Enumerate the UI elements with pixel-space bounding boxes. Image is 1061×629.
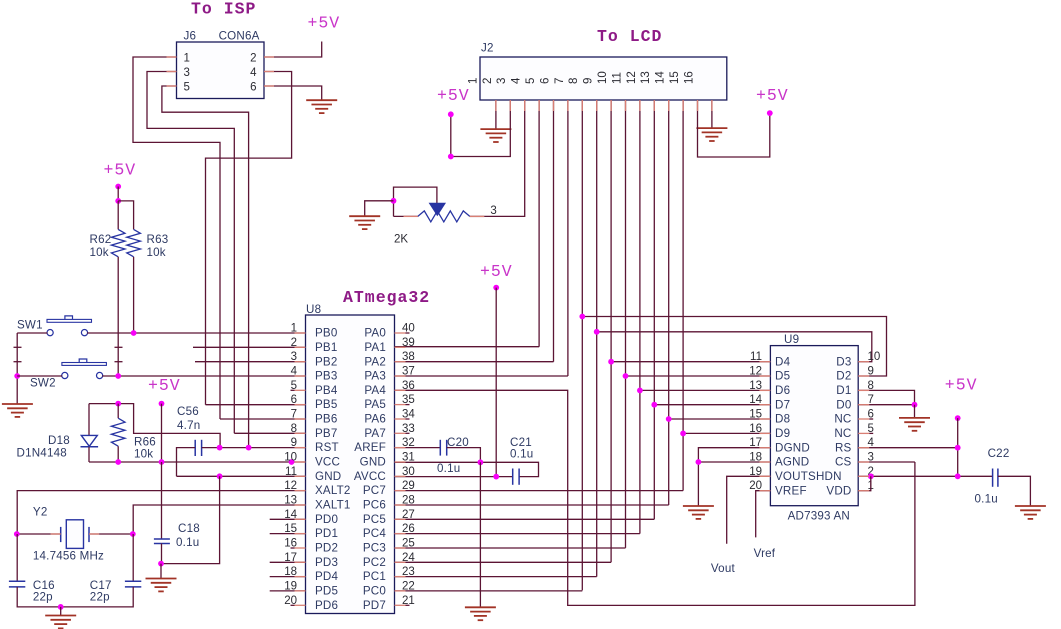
- pin stub U8-13: [295, 504, 306, 506]
- pin stub U8-6: [295, 404, 306, 406]
- svg-text:3: 3: [184, 67, 190, 79]
- pin stub U9 right 3: [858, 461, 869, 463]
- ground at J6 pin6: [306, 100, 337, 113]
- pin name RST U8-9: [315, 441, 339, 454]
- wire PC7 row (pin29) to J2 p14: [395, 490, 684, 492]
- pin stub U9 right 1: [858, 490, 869, 492]
- junction dot J2 p13: [666, 416, 672, 422]
- pin name PB2 U8-3: [315, 355, 338, 368]
- pin name PC5 U8-27: [363, 513, 386, 526]
- wire D0 to ground: [914, 405, 916, 418]
- pin stub U8-3: [295, 361, 306, 363]
- svg-text:D9: D9: [775, 427, 790, 440]
- wire crystal ground rail: [17, 587, 133, 607]
- wire J2 pin4 vertical: [538, 100, 540, 347]
- capacitor C20: [440, 440, 446, 456]
- svg-text:PA7: PA7: [364, 427, 386, 440]
- pin stub U9 left 19: [759, 475, 770, 477]
- junction dot J2 p11: [637, 388, 643, 394]
- svg-text:3: 3: [490, 205, 496, 217]
- svg-text:D6: D6: [775, 384, 790, 397]
- wire J2 pin16 to ground: [711, 100, 713, 128]
- junction dot R62/R63 top: [115, 198, 121, 204]
- junction dot RS/+5V: [955, 445, 961, 451]
- wire PC5 row (pin27) to J2 p12: [395, 518, 655, 520]
- svg-text:0.1u: 0.1u: [975, 493, 998, 506]
- wire D4 row from J2 p9: [611, 361, 770, 363]
- pin name PC6 U8-28: [363, 499, 386, 512]
- wire VCC row (pin10): [89, 461, 306, 463]
- wire PC4 row (pin26) to J2 p11: [395, 533, 640, 535]
- junction dot crystal left: [14, 531, 20, 537]
- pin stub J6-6: [264, 85, 274, 87]
- pin name D1 U9-8: [836, 384, 851, 397]
- pin number 20 U8: [284, 595, 297, 607]
- wire J6 pin2 to +5V: [264, 42, 322, 58]
- pin number 8 U9: [868, 380, 874, 392]
- svg-text:PA5: PA5: [364, 398, 386, 411]
- wire D8 row from J2 p13: [669, 418, 771, 420]
- wire PC6 row (pin28) to J2 p13: [395, 504, 669, 506]
- pin number 10 U9: [868, 351, 881, 363]
- wire tick row2 left: [14, 346, 22, 348]
- label SW1: [17, 319, 43, 332]
- wire ground branch: [365, 201, 394, 216]
- wire SW2 to PB3 (pin4 row): [102, 375, 305, 377]
- ground at C22: [1015, 506, 1046, 519]
- capacitor C56: [195, 440, 201, 456]
- svg-text:10: 10: [868, 351, 881, 363]
- wire SHDN row (pin2): [858, 475, 992, 477]
- label 2K: [394, 233, 408, 245]
- svg-text:22p: 22p: [33, 590, 53, 603]
- pin stub U8-7: [295, 418, 306, 420]
- pin number 10 U8: [284, 452, 297, 464]
- label C21: [510, 436, 532, 449]
- wire stub tick pin40: [406, 332, 410, 334]
- svg-text:+5V: +5V: [756, 86, 789, 105]
- wire PB7 row (pin8): [234, 432, 305, 434]
- pin name D2 U9-9: [836, 370, 851, 383]
- wire DGND row (pin17): [698, 448, 770, 506]
- svg-text:7: 7: [554, 78, 566, 84]
- svg-text:CON6A: CON6A: [219, 30, 260, 43]
- svg-text:PB0: PB0: [315, 327, 338, 340]
- pin number 12 U9: [749, 366, 762, 378]
- pin number 4 J6: [250, 67, 257, 79]
- pin stub U9 left 20: [759, 490, 770, 492]
- pin number 11 U8: [285, 466, 297, 478]
- power +5V above R62: [104, 160, 137, 179]
- pin number 5 U8: [291, 380, 297, 392]
- wire D3 route from J2 p8: [597, 332, 872, 362]
- junction dot SHDN/VDD: [868, 473, 874, 479]
- wire J2 pin15 to +5V: [698, 100, 770, 157]
- pin name PA7 U8-33: [364, 427, 386, 440]
- pin name PB4 U8-5: [315, 384, 338, 397]
- label R63: [147, 233, 169, 246]
- wire J6 pin1 to PB6 route: [133, 57, 220, 419]
- pin stub U8-23: [395, 576, 406, 578]
- pin name PD3 U8-17: [315, 556, 338, 569]
- pin stub U8-38: [395, 361, 406, 363]
- svg-text:J6: J6: [184, 30, 197, 43]
- label C22: [988, 447, 1010, 460]
- wire +5V vertical U9: [957, 418, 959, 476]
- svg-text:0.1u: 0.1u: [510, 448, 533, 461]
- pin stub U8-5: [295, 389, 306, 391]
- pin name PB1 U8-2: [315, 341, 338, 354]
- pin name PD1 U8-15: [315, 527, 338, 540]
- svg-text:D8: D8: [775, 413, 790, 426]
- svg-text:PD5: PD5: [315, 585, 338, 598]
- svg-text:12: 12: [626, 71, 638, 84]
- svg-text:GND: GND: [360, 456, 386, 469]
- svg-text:PC1: PC1: [363, 570, 386, 583]
- pin number 4 U8: [291, 366, 298, 378]
- label CON6A: [219, 30, 260, 43]
- wire R63 top branch: [118, 201, 133, 230]
- pot stub left: [404, 215, 418, 217]
- pin stub U8-35: [395, 404, 406, 406]
- pin stub U8-27: [395, 518, 406, 520]
- pin name PC1 U8-23: [363, 570, 386, 583]
- junction dot SW2 left: [14, 373, 20, 379]
- wire SW2 left: [17, 375, 62, 377]
- wire J2 pin8 vertical: [596, 100, 598, 577]
- capacitor C16: [9, 581, 25, 587]
- wire XALT1 row (pin13): [133, 505, 305, 534]
- junction dot C18 bottom: [158, 561, 164, 567]
- wire RS (pin4): [858, 447, 958, 449]
- pin number 30 U8: [402, 466, 415, 478]
- svg-text:4: 4: [511, 77, 523, 84]
- pin number 17 U9: [749, 437, 762, 449]
- wire J2 pin1 to ground: [495, 100, 497, 129]
- ic U8 box: [306, 315, 395, 614]
- pin stub U8-26: [395, 533, 406, 535]
- label C20 value 0.1u: [437, 462, 460, 475]
- pin number 13 U8: [284, 495, 297, 507]
- label U9: [784, 333, 799, 346]
- svg-text:PC5: PC5: [363, 513, 386, 526]
- pin stub U8-37: [395, 375, 406, 377]
- wire J2 pin10 vertical: [625, 100, 627, 548]
- junction dot SW2/R62: [115, 373, 121, 379]
- title To LCD: [597, 27, 662, 46]
- pin stub J2-2: [509, 100, 511, 111]
- junction dot R66 top: [115, 401, 121, 407]
- junction dot J2 p9: [608, 359, 614, 365]
- junction dot +5V left corner: [448, 154, 454, 160]
- pin stub U9 left 15: [759, 418, 770, 420]
- wire VREF (pin20): [756, 491, 771, 538]
- pin name D6 U9-13: [775, 384, 790, 397]
- pin name D5 U9-12: [775, 370, 790, 383]
- svg-text:6: 6: [539, 78, 551, 84]
- junction dot D0/D1: [912, 402, 918, 408]
- svg-text:PA3: PA3: [364, 370, 386, 383]
- pin stub U9 left 13: [759, 389, 770, 391]
- pin stub J6-5: [167, 85, 177, 87]
- diode D18: [81, 404, 99, 462]
- wire PB1 row (pin2): [193, 346, 306, 348]
- svg-text:C18: C18: [178, 522, 200, 535]
- power +5V left of J2: [437, 86, 470, 105]
- wire GND row (pin31): [395, 462, 539, 476]
- svg-text:CS: CS: [835, 456, 852, 469]
- wire +5V to AVCC: [495, 288, 497, 477]
- net label Vout: [711, 562, 736, 575]
- wire J2 pin9 vertical: [610, 100, 612, 562]
- wire rail to ground: [60, 607, 62, 615]
- pin name PD0 U8-14: [315, 513, 338, 526]
- pin number 40 U8: [402, 323, 415, 335]
- label C22 value 0.1u: [975, 493, 998, 506]
- svg-text:D18: D18: [48, 434, 70, 447]
- pin stub J2-6: [567, 100, 569, 111]
- wire D0 (pin7): [858, 404, 914, 406]
- svg-text:D0: D0: [836, 398, 851, 411]
- svg-text:AGND: AGND: [775, 456, 809, 469]
- ground at J2 pin1: [480, 129, 511, 142]
- label C17: [90, 579, 112, 592]
- junction dot AVCC/+5V: [493, 474, 499, 480]
- pin name NC U9-5: [834, 427, 851, 440]
- pin number 9 U9: [868, 366, 874, 378]
- wire PD5 dangling (pin19): [270, 590, 306, 592]
- wire stub tick pin21: [406, 604, 410, 606]
- svg-text:PD3: PD3: [315, 556, 338, 569]
- wire VOUT (pin19): [727, 476, 771, 544]
- svg-text:+5V: +5V: [480, 262, 513, 281]
- wire PC1 row (pin23) to J2 p8: [395, 576, 597, 578]
- pin stub U9 left 17: [759, 447, 770, 449]
- svg-text:PD4: PD4: [315, 570, 339, 583]
- svg-text:PD7: PD7: [363, 599, 386, 612]
- label 3 at pot terminal: [490, 205, 496, 217]
- svg-text:PC2: PC2: [363, 556, 386, 569]
- wire PB2 row (pin3): [195, 361, 306, 363]
- connector J2 box: [480, 57, 727, 100]
- node +5V terminal left of J2: [448, 111, 454, 117]
- pin number 36 U8: [402, 380, 415, 392]
- pin stub U8-11: [295, 475, 306, 477]
- pin name PA5 U8-35: [364, 398, 386, 411]
- pin number 6 J6: [250, 82, 256, 94]
- pin number 6 U9: [868, 409, 874, 421]
- pin name AREF U8-32: [354, 441, 386, 454]
- pin stub U8-15: [295, 533, 306, 535]
- svg-text:4: 4: [250, 67, 257, 79]
- pin name RS U9-4: [835, 441, 852, 454]
- svg-text:10k: 10k: [147, 246, 166, 259]
- pin number 16 J2 (rotated): [683, 71, 695, 84]
- junction dot VCC at chip: [289, 459, 295, 465]
- wire RST row (pin9): [202, 447, 306, 449]
- pin stub U8-9: [295, 447, 306, 449]
- switch SW2: [62, 359, 107, 379]
- junction dot J2 p14: [680, 431, 686, 437]
- svg-text:10: 10: [597, 71, 609, 84]
- pin number 33 U8: [402, 423, 415, 435]
- pin stub U8-18: [295, 576, 306, 578]
- junction dot +5V/VCC: [159, 459, 165, 465]
- pin name PC3 U8-25: [363, 542, 386, 555]
- svg-text:VREF: VREF: [775, 484, 807, 497]
- pin stub U9 left 18: [759, 461, 770, 463]
- wire XALT2 row (pin12): [17, 491, 305, 534]
- pin stub J2-15: [697, 100, 699, 111]
- pin stub J2-4: [538, 100, 540, 111]
- wire +5V to VCC row: [161, 404, 163, 462]
- pin name PC2 U8-24: [363, 556, 386, 569]
- junction dot J2 p8: [594, 329, 600, 335]
- svg-text:11: 11: [611, 72, 623, 84]
- pin stub U9 right 5: [858, 432, 869, 434]
- svg-text:AVCC: AVCC: [354, 470, 386, 483]
- pin stub U9 right 9: [858, 375, 869, 377]
- wire stub tick pin34: [406, 418, 410, 420]
- pin stub U8-4: [295, 375, 306, 377]
- power +5V above U8: [480, 262, 513, 281]
- svg-text:2: 2: [250, 53, 256, 65]
- svg-text:Vref: Vref: [754, 547, 776, 560]
- pin name PA0 U8-40: [364, 327, 386, 340]
- ground at switches: [2, 404, 33, 417]
- svg-text:PA4: PA4: [364, 384, 386, 397]
- junction dot J2 p12: [651, 402, 657, 408]
- wire J2 pin11 vertical: [639, 100, 641, 534]
- svg-text:VCC: VCC: [315, 456, 340, 469]
- label D18 value D1N4148: [17, 447, 67, 460]
- node +5V terminal right of J2: [767, 110, 773, 116]
- junction dot R66 bottom: [115, 459, 121, 465]
- pin number 4 J2 (rotated): [511, 77, 523, 84]
- wire stub tick pin5: [291, 389, 295, 391]
- wire AVCC row (pin30): [395, 476, 513, 478]
- pin number 15 U9: [749, 409, 762, 421]
- ground at D0/D1: [899, 418, 930, 431]
- pin name PC7 U8-29: [363, 484, 386, 497]
- label AD7393 AN: [788, 510, 850, 523]
- svg-text:0.1u: 0.1u: [437, 462, 460, 475]
- pin stub J6-2: [264, 56, 274, 58]
- pin number 12 J2 (rotated): [626, 71, 638, 84]
- pin number 13 U9: [749, 380, 762, 392]
- pin name PA2 U8-38: [364, 355, 386, 368]
- pin name NC U9-6: [834, 413, 851, 426]
- wire R63 bottom to SW1 row: [133, 257, 135, 333]
- label R63 value 10k: [147, 246, 166, 259]
- svg-text:PC4: PC4: [363, 527, 387, 540]
- pin stub U9 left 12: [759, 375, 770, 377]
- wire stub tick U9 pin6: [869, 418, 873, 420]
- svg-text:PB7: PB7: [315, 427, 338, 440]
- svg-text:+5V: +5V: [437, 86, 470, 105]
- wire tick row3 left: [14, 361, 22, 363]
- wire GND31 to bottom ground: [479, 462, 481, 607]
- svg-text:RST: RST: [315, 441, 339, 454]
- pin number 14 U8: [284, 509, 297, 521]
- label Y2: [33, 506, 48, 519]
- svg-text:PD6: PD6: [315, 599, 338, 612]
- svg-text:+5V: +5V: [104, 160, 137, 179]
- wire J6 pin4 to PB5 route: [206, 72, 292, 405]
- pin stub U8-17: [295, 561, 306, 563]
- ic U9 box: [770, 346, 858, 506]
- net label Vref: [754, 547, 776, 560]
- pin name VCC U8-10: [315, 456, 340, 469]
- pin stub U8-33: [395, 432, 406, 434]
- pin number 38 U8: [402, 351, 415, 363]
- pin number 27 U8: [402, 509, 415, 521]
- pin name PA4 U8-36: [364, 384, 386, 397]
- pin number 18 U8: [284, 566, 297, 578]
- pin name DGND U9-17: [775, 441, 810, 454]
- pin number 3 U8: [291, 351, 297, 363]
- pin stub U9 left 11: [759, 361, 770, 363]
- crystal stub right: [89, 533, 99, 535]
- pin number 24 U8: [402, 552, 415, 564]
- label J6: [184, 30, 197, 43]
- pin stub J2-5: [553, 100, 555, 111]
- junction dot pot left node: [391, 198, 397, 204]
- svg-text:GND: GND: [315, 470, 341, 483]
- label R62: [90, 233, 112, 246]
- pin number 18 U9: [749, 452, 762, 464]
- capacitor C22: [993, 469, 998, 487]
- svg-text:+5V: +5V: [945, 376, 978, 395]
- wire PB2 row stub tick: [115, 361, 123, 363]
- svg-text:D3: D3: [836, 355, 851, 368]
- label R66: [134, 436, 156, 449]
- svg-text:1: 1: [184, 53, 190, 65]
- svg-text:+5V: +5V: [308, 14, 341, 33]
- pin stub J2-16: [711, 100, 713, 111]
- svg-text:To ISP: To ISP: [191, 0, 256, 19]
- svg-text:D1: D1: [836, 384, 851, 397]
- pin number 9 U8: [291, 437, 297, 449]
- pin name PA3 U8-37: [364, 370, 386, 383]
- pot lead right: [470, 215, 484, 217]
- wire PA4 row (pin36) to CS net: [395, 390, 915, 605]
- svg-text:PB6: PB6: [315, 413, 338, 426]
- pin number 35 U8: [402, 394, 415, 406]
- pin stub U8-29: [395, 490, 406, 492]
- wire D5 row from J2 p10: [626, 375, 771, 377]
- svg-text:R62: R62: [90, 233, 112, 246]
- pin stub J2-14: [682, 100, 684, 111]
- wire C18 top: [161, 462, 163, 539]
- pin name GND U8-31: [360, 456, 386, 469]
- pin number 14 J2 (rotated): [655, 71, 667, 84]
- pin number 15 J2 (rotated): [669, 71, 681, 84]
- pin stub U8-22: [395, 590, 406, 592]
- pin number 21 U8: [402, 595, 415, 607]
- svg-text:2: 2: [482, 78, 494, 84]
- pin number 16 U8: [284, 538, 297, 550]
- svg-text:C56: C56: [177, 405, 199, 418]
- pin number 34 U8: [402, 409, 415, 421]
- power +5V at R66: [148, 376, 181, 395]
- pin number 23 U8: [402, 566, 415, 578]
- svg-text:PB5: PB5: [315, 398, 338, 411]
- wire J2 pin3 to pot wiper net: [484, 100, 525, 216]
- pin name VREF U9-20: [775, 484, 807, 497]
- svg-text:9: 9: [583, 78, 595, 84]
- svg-text:D4: D4: [775, 355, 791, 368]
